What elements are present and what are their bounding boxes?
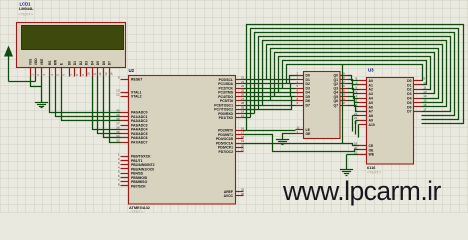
LCD display LCD1 labels — [19, 2, 35, 17]
svg-text:12: 12 — [98, 72, 102, 76]
wire power to LCD VDD — [9, 81, 36, 83]
wire U2 PC5 to latch D5 — [244, 97, 296, 101]
svg-text:11: 11 — [423, 85, 426, 89]
wire U2 PD3 to U3 OE — [244, 135, 359, 152]
wire to U3 A8 — [353, 115, 359, 117]
svg-text:22: 22 — [354, 116, 358, 120]
svg-text:D1: D1 — [73, 61, 77, 65]
U2 right pin labels — [214, 78, 234, 198]
U2 right pin numbers — [241, 76, 245, 196]
wire U2 PC0 to latch D0 — [244, 76, 296, 80]
U2 left pin numbers — [116, 76, 120, 187]
svg-text:D3: D3 — [85, 61, 89, 65]
wire latch Q7 to U3 A7 — [348, 106, 359, 112]
microcontroller U2 ATMEGA32 body — [129, 76, 236, 205]
svg-text:CE: CE — [369, 144, 374, 148]
wire latch Q2 to U3 A2 — [348, 84, 359, 90]
svg-text:Q7: Q7 — [333, 103, 338, 107]
wire LCD VSS to VEE line — [31, 77, 42, 87]
wire LCD RS to PA0 — [50, 77, 121, 113]
wire bus loop PD2 high address — [247, 25, 464, 131]
svg-text:VEE: VEE — [40, 58, 44, 65]
LCD screen — [22, 26, 124, 50]
wire latch Q0 to U3 A0 — [348, 76, 359, 81]
LCD pin name labels — [28, 58, 111, 66]
wire latch Q4 to U3 A4 — [348, 93, 359, 99]
svg-text:10: 10 — [87, 72, 91, 76]
svg-text:VSS: VSS — [28, 58, 32, 65]
latch left pin numbers — [297, 71, 300, 134]
LCD pin numbers 1-14 — [30, 72, 113, 76]
svg-text:XTAL2: XTAL2 — [131, 95, 142, 99]
latch left pin labels — [306, 74, 312, 137]
wire U2 PD0 feed to loop 2 — [244, 113, 255, 115]
U3 value label 6116 — [367, 165, 382, 175]
wire LCD RW to PA1 — [56, 77, 121, 117]
svg-text:A3: A3 — [369, 92, 373, 96]
wire bus loop PC6 to U3 D6 — [263, 41, 447, 107]
svg-text:A5: A5 — [369, 101, 373, 105]
svg-text:14: 14 — [110, 72, 114, 76]
svg-text:A0: A0 — [369, 79, 373, 83]
wire U2 PC4 to latch D4 — [244, 93, 296, 97]
power +5V arrow — [4, 46, 13, 82]
svg-text:LM044L: LM044L — [19, 6, 34, 11]
U3 left pin labels — [369, 79, 375, 157]
svg-text:<TEXT>: <TEXT> — [19, 11, 34, 16]
wire U2 PC6 to latch D6 — [244, 101, 296, 106]
svg-text:D2: D2 — [79, 61, 83, 65]
wire bus loop PC4 to U3 D3 — [275, 53, 435, 97]
svg-text:12: 12 — [116, 93, 120, 97]
wire LCD VDD drop — [35, 77, 37, 82]
svg-text:PD7/OC2: PD7/OC2 — [218, 150, 233, 154]
svg-text:A4: A4 — [369, 96, 373, 100]
svg-text:D2: D2 — [407, 88, 411, 92]
wire LCD D7 to PA7 — [110, 77, 121, 143]
U3 left pin stubs — [359, 81, 367, 155]
wire U2 PD2 to latch LE — [244, 130, 296, 132]
svg-text:33: 33 — [116, 138, 120, 142]
U3 left pin numbers — [354, 77, 358, 155]
svg-text:17: 17 — [423, 107, 427, 111]
wire A9 vertical — [355, 121, 357, 135]
svg-text:D0: D0 — [67, 61, 71, 65]
LCD pin stubs 1-14 — [31, 68, 110, 77]
latch right pin numbers — [342, 71, 346, 105]
wire U3 WE ground drop — [346, 155, 348, 170]
ground GND U3 WE — [340, 170, 353, 176]
latch right pin labels — [333, 74, 338, 108]
svg-text:RW: RW — [54, 59, 58, 65]
svg-text:D4: D4 — [90, 61, 94, 65]
wire latch OE to ground — [283, 134, 296, 140]
wire LCD D4 to PA4 — [93, 77, 121, 130]
wire LCD VEE down to ground — [41, 77, 43, 103]
svg-text:PD1/TXD: PD1/TXD — [219, 116, 234, 120]
ground GND latch OE — [276, 140, 289, 145]
wire bus loop PC1 to U3 D0 — [287, 65, 423, 84]
svg-text:A8: A8 — [369, 114, 373, 118]
svg-text:D4: D4 — [407, 96, 411, 100]
wire LCD D6 to PA6 — [104, 77, 121, 138]
wire U2 PC7 to latch D7 — [244, 106, 296, 110]
svg-text:AVCC: AVCC — [224, 194, 234, 198]
wire bus loop PC0 to U3 D5 — [267, 45, 443, 103]
wire latch Q1 to U3 A1 — [348, 80, 359, 85]
wire to U3 A9 — [356, 120, 359, 122]
wire latch Q5 to U3 A5 — [348, 97, 359, 103]
svg-text:www.lpcarm.ir: www.lpcarm.ir — [282, 176, 441, 206]
svg-text:A10: A10 — [369, 123, 375, 127]
svg-text:RESET: RESET — [131, 78, 143, 82]
U2 right pin stubs — [236, 80, 244, 196]
svg-text:D7: D7 — [407, 110, 411, 114]
wire vertical junction drop to CE row — [342, 65, 344, 144]
wire LCD D5 to PA5 — [98, 77, 121, 134]
latch right pin stubs — [341, 76, 348, 106]
wire U2 PD5 to U3 CE — [244, 144, 359, 146]
svg-text:PB7/SCK: PB7/SCK — [131, 184, 146, 188]
svg-text:11: 11 — [92, 72, 96, 75]
svg-text:U3: U3 — [368, 67, 374, 72]
wire bus loop PC2 to U3 D1 — [283, 61, 427, 89]
svg-text:D7: D7 — [306, 103, 310, 107]
svg-text:OE: OE — [306, 132, 312, 136]
svg-text:A9: A9 — [369, 118, 373, 122]
wire U3 WE stub wire — [347, 154, 359, 156]
svg-text:VDD: VDD — [34, 58, 38, 66]
latch left pin stubs — [296, 76, 304, 134]
wire A8 vertical — [352, 116, 354, 132]
svg-text:D3: D3 — [407, 92, 411, 96]
svg-text:D0: D0 — [407, 79, 411, 83]
svg-text:30: 30 — [241, 192, 245, 196]
wire latch Q3 to U3 A3 — [348, 89, 359, 94]
U3 right pin labels — [407, 79, 411, 114]
wire A10 vertical — [358, 125, 360, 138]
svg-text:21: 21 — [241, 148, 245, 152]
svg-text:OE: OE — [369, 148, 375, 152]
wire U2 PC1 to latch D1 — [244, 80, 296, 84]
SRAM U3 6116 body — [367, 78, 414, 165]
ground GND under LCD — [35, 103, 48, 108]
svg-text:U2: U2 — [129, 68, 135, 73]
U3 right pin numbers — [423, 77, 427, 112]
wire LCD E to PA2 — [62, 77, 121, 121]
svg-text:D7: D7 — [108, 61, 112, 65]
svg-text:14: 14 — [423, 94, 427, 98]
U2 value label ATMEGA32 — [129, 205, 151, 214]
wire bus loop PC5 to U3 D4 — [271, 49, 439, 101]
svg-text:D5: D5 — [407, 101, 411, 105]
wire bus loop PD1 high address — [251, 29, 459, 120]
wire to U3 A10 — [358, 124, 360, 126]
svg-text:A6: A6 — [369, 105, 373, 109]
svg-text:13: 13 — [104, 72, 108, 76]
svg-text:<TEXT>: <TEXT> — [367, 171, 382, 175]
wire U2 PC3 to latch D3 — [244, 89, 296, 93]
latch U1 74573 body — [304, 72, 341, 139]
wire bus loop PD0 high address — [255, 33, 455, 116]
svg-text:D6: D6 — [102, 61, 106, 65]
svg-text:D1: D1 — [407, 83, 411, 87]
svg-text:D5: D5 — [96, 61, 100, 65]
svg-text:A7: A7 — [369, 110, 373, 114]
LCD display LCD1 body — [17, 23, 126, 68]
svg-text:RS: RS — [48, 60, 52, 65]
U3 right pin stubs — [414, 81, 422, 112]
wire U2 PC2 to latch D2 — [244, 84, 296, 89]
svg-text:<TEXT>: <TEXT> — [129, 210, 144, 213]
U2 left pin stubs — [121, 80, 129, 186]
wire bus loop PC7 to U3 D7 — [259, 37, 451, 112]
svg-text:A2: A2 — [369, 88, 373, 92]
wire U2 PD1 feed to loop 1 — [244, 117, 251, 119]
U2 left pin labels — [131, 78, 155, 189]
svg-text:PA7/ADC7: PA7/ADC7 — [131, 140, 148, 144]
svg-text:D6: D6 — [407, 105, 411, 109]
wire latch Q6 to U3 A6 — [348, 101, 359, 107]
svg-text:A1: A1 — [369, 83, 373, 87]
svg-text:6116: 6116 — [367, 165, 376, 170]
wire bus loop PC3 to U3 D2 — [279, 57, 431, 93]
svg-text:WE: WE — [369, 153, 375, 157]
